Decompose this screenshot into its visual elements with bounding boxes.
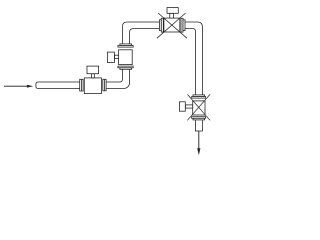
wire: pipe V1 to bottom elbow, riser to V2 <box>106 69 130 89</box>
valve V2 side stem <box>114 55 118 58</box>
valve V4 side actuator box <box>179 102 185 111</box>
valve V2 side actuator box <box>107 52 114 62</box>
valve V4 top flange pair <box>192 95 206 98</box>
valve V3 right flange pair <box>181 18 185 32</box>
valve V4 bottom flange pair <box>192 117 206 120</box>
valve V4 body <box>193 101 205 115</box>
valve V4 cross lines <box>187 94 210 120</box>
inlet arrow <box>4 85 33 88</box>
valve V1 left flange pair <box>80 79 83 91</box>
valve V3 left flange pair <box>160 18 164 32</box>
outlet arrow <box>197 131 200 155</box>
valve V2 body <box>119 50 133 65</box>
wire: pipe below V4 with capped end <box>195 120 202 131</box>
valve V1 body <box>84 78 101 94</box>
wire: riser above V2, top elbow, top pipe to V3 <box>122 22 160 44</box>
valve V1 actuator stem <box>92 74 95 78</box>
valve V2 top flange pair <box>118 44 133 47</box>
valve V4 side stem <box>185 105 192 108</box>
valve V2 bottom flange pair <box>118 66 133 69</box>
valve V3 body <box>164 18 180 32</box>
valve V1 actuator box <box>87 66 99 74</box>
wire: top pipe right of V3, right elbow, down pipe to V4 <box>185 22 203 95</box>
wire: inlet horizontal pipe <box>36 82 81 89</box>
valve V3 actuator box <box>167 8 178 14</box>
valve V1 right flange pair <box>103 79 106 91</box>
valve V3 cross lines <box>157 13 187 38</box>
valve V3 actuator stem <box>170 13 174 18</box>
